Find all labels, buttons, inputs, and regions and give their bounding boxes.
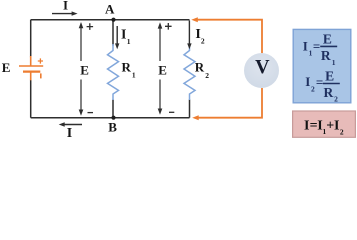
svg-text:1: 1 (332, 58, 336, 67)
svg-text:2: 2 (205, 71, 209, 80)
svg-text:E: E (2, 60, 11, 75)
svg-text:=: = (313, 39, 320, 54)
svg-text:E: E (158, 62, 167, 77)
svg-text:E: E (325, 69, 334, 84)
svg-text:2: 2 (340, 128, 344, 137)
svg-text:I: I (303, 38, 308, 53)
svg-text:I: I (121, 28, 126, 43)
svg-text:1: 1 (127, 37, 131, 46)
svg-text:V: V (255, 56, 270, 78)
svg-text:2: 2 (311, 84, 315, 93)
svg-text:A: A (105, 1, 115, 16)
svg-text:I: I (67, 126, 72, 141)
svg-text:R: R (321, 48, 331, 63)
svg-text:2: 2 (334, 95, 338, 104)
svg-text:R: R (122, 59, 132, 74)
svg-text:=: = (316, 74, 323, 89)
svg-text:1: 1 (132, 71, 136, 80)
svg-text:E: E (80, 62, 89, 77)
svg-text:I: I (334, 119, 339, 134)
svg-text:2: 2 (201, 37, 205, 46)
svg-text:B: B (108, 120, 117, 135)
svg-text:I: I (63, 0, 68, 12)
svg-text:+: + (326, 119, 334, 134)
svg-text:R: R (195, 59, 205, 74)
svg-text:E: E (323, 32, 332, 47)
svg-text:R: R (324, 85, 334, 100)
svg-text:I: I (305, 74, 310, 89)
